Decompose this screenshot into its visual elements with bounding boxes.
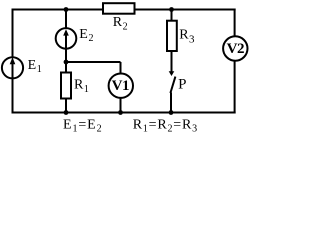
svg-text:V1: V1: [112, 78, 129, 94]
svg-text:P: P: [178, 77, 186, 93]
svg-text:V2: V2: [227, 41, 244, 57]
svg-text:E1=E2: E1=E2: [63, 117, 103, 134]
svg-text:R1=R2=R3: R1=R2=R3: [133, 117, 198, 134]
